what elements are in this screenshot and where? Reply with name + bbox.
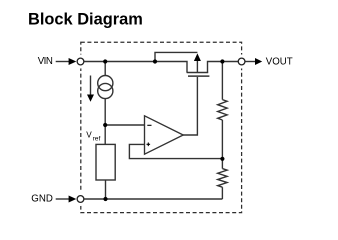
- svg-text:Block Diagram: Block Diagram: [28, 10, 143, 28]
- svg-text:VIN: VIN: [38, 56, 53, 67]
- svg-text:V: V: [86, 131, 92, 140]
- svg-text:VOUT: VOUT: [266, 57, 293, 68]
- svg-text:GND: GND: [31, 194, 53, 205]
- svg-text:ref: ref: [93, 135, 101, 142]
